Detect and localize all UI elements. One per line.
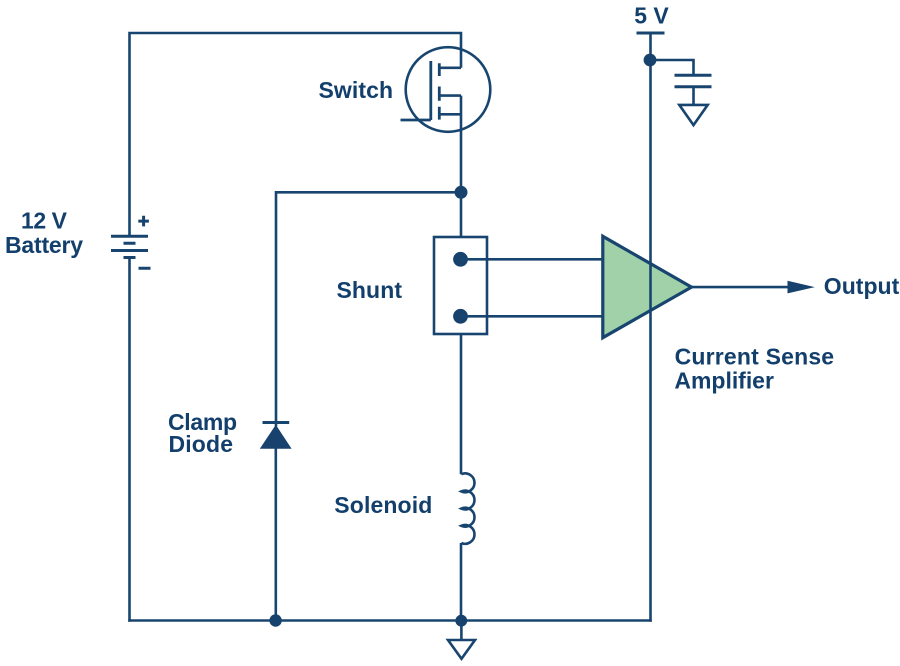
svg-text:5 V: 5 V	[634, 3, 669, 29]
diode D1 clamp diode	[260, 423, 292, 449]
svg-text:Shunt: Shunt	[337, 277, 403, 303]
node: 5V junction to decoupling cap	[644, 54, 657, 67]
battery 12V	[111, 216, 151, 268]
wire: battery negative down left side	[128, 258, 131, 622]
arrowhead: output arrow	[788, 281, 815, 294]
wire: bottom sense tap to amplifier input	[461, 315, 605, 318]
wire: capacitor to ground symbol	[692, 87, 695, 104]
node: clamp diode / ground rail junction	[269, 614, 281, 626]
node: shunt bottom sense tap	[453, 309, 468, 324]
inductor L1 solenoid coil	[461, 473, 474, 543]
wire: stub to main ground symbol	[460, 621, 463, 641]
capacitor C1 decoupling	[675, 75, 712, 86]
svg-text:Switch: Switch	[319, 77, 394, 103]
ground (decoupling cap)	[679, 105, 707, 125]
svg-text:12 V: 12 V	[21, 207, 68, 233]
svg-text:Solenoid: Solenoid	[334, 492, 432, 518]
wire: switch source down to junction node	[460, 96, 463, 193]
wire: junction across to clamp diode branch	[276, 192, 461, 426]
wire: junction down to shunt	[460, 192, 463, 237]
wire: branch to decoupling capacitor	[650, 60, 694, 75]
resistor R1 shunt	[434, 237, 487, 334]
ground (main)	[448, 640, 475, 659]
svg-text:Current Sense: Current Sense	[675, 344, 835, 370]
wire: top sense tap to amplifier input	[461, 258, 605, 261]
node: solenoid / ground rail junction	[455, 615, 467, 627]
node: shunt top sense tap	[453, 252, 468, 267]
svg-text:Battery: Battery	[5, 232, 83, 258]
wire: shunt bottom to solenoid	[460, 334, 463, 474]
wire: 5V rail down right side to ground rail	[649, 33, 652, 622]
wire: clamp diode anode down to ground rail	[274, 449, 277, 621]
op-amp U1 current sense amplifier	[603, 236, 692, 337]
svg-text:Amplifier: Amplifier	[674, 367, 774, 393]
power: 5V supply terminal bar	[637, 32, 665, 35]
wire: amplifier output	[692, 286, 790, 289]
wire: 12V positive rail (battery + up, across top, to switch drain)	[130, 33, 462, 236]
svg-text:Output: Output	[824, 273, 900, 299]
svg-text:Diode: Diode	[169, 431, 234, 457]
wire: solenoid to ground rail	[460, 543, 463, 621]
node: junction below switch	[455, 186, 468, 199]
transistor Q1 MOSFET switch	[401, 47, 491, 132]
wire: bottom ground rail	[128, 619, 652, 622]
